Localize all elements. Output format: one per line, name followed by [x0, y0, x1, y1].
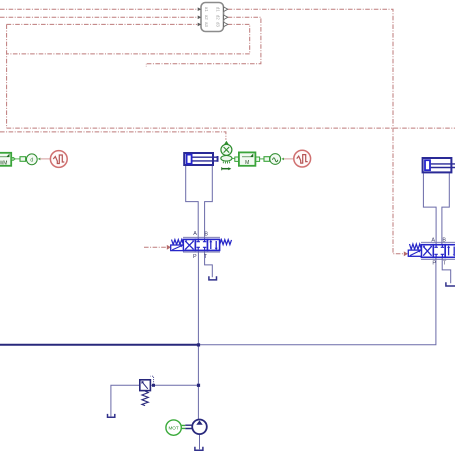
svg-text:M: M: [245, 160, 249, 166]
svg-text:d: d: [30, 157, 33, 163]
svg-text:B: B: [204, 231, 208, 237]
svg-text:d1: d1: [215, 7, 220, 12]
svg-text:P: P: [432, 261, 436, 267]
svg-text:P: P: [193, 254, 197, 260]
svg-text:a2: a2: [204, 15, 209, 20]
svg-text:MOT: MOT: [168, 425, 178, 430]
svg-text:A: A: [431, 238, 435, 244]
svg-text:WM: WM: [0, 161, 7, 167]
svg-text:B: B: [442, 238, 446, 244]
svg-text:a3: a3: [204, 22, 209, 27]
svg-text:d3: d3: [215, 22, 220, 27]
svg-text:A: A: [193, 231, 197, 237]
svg-text:d2: d2: [215, 15, 220, 20]
svg-text:a1: a1: [204, 7, 209, 12]
